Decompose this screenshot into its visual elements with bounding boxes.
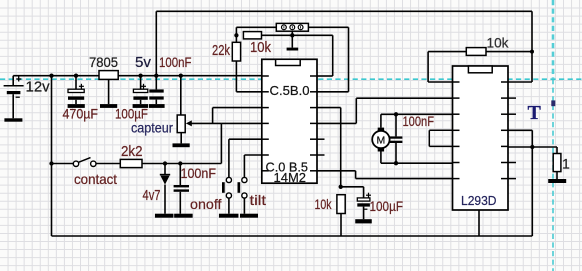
svg-text:L293D: L293D [461, 193, 497, 208]
svg-text:100nF: 100nF [403, 113, 435, 129]
svg-text:10k: 10k [487, 35, 510, 51]
svg-text:C.5B.0: C.5B.0 [270, 83, 310, 98]
svg-text:470µF: 470µF [63, 106, 99, 122]
svg-text:100nF: 100nF [159, 54, 192, 70]
svg-text:2k2: 2k2 [121, 143, 143, 160]
svg-text:7805: 7805 [89, 54, 118, 70]
svg-text:1: 1 [562, 155, 570, 171]
svg-text:12v: 12v [26, 79, 51, 96]
svg-text:tilt: tilt [250, 192, 267, 208]
svg-text:5v: 5v [135, 54, 152, 71]
svg-text:contact: contact [74, 171, 117, 187]
svg-text:T: T [528, 102, 542, 124]
svg-text:onoff: onoff [190, 196, 222, 212]
svg-text:4v7: 4v7 [143, 187, 161, 204]
svg-text:M: M [377, 135, 386, 147]
svg-text:10k: 10k [250, 39, 271, 56]
svg-text:100nF: 100nF [181, 165, 217, 181]
svg-text:100µF: 100µF [370, 198, 404, 214]
svg-text:14M2: 14M2 [274, 170, 307, 185]
svg-text:22k: 22k [212, 42, 230, 59]
svg-text:capteur: capteur [131, 119, 173, 135]
svg-text:10k: 10k [315, 196, 333, 212]
